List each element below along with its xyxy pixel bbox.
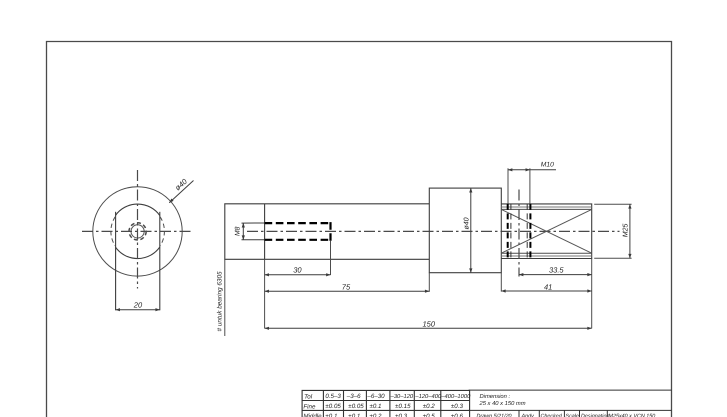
svg-text:150: 150: [423, 320, 436, 329]
dimension 41: [501, 290, 591, 292]
svg-text:ø40: ø40: [173, 176, 189, 192]
svg-text:75: 75: [342, 283, 351, 292]
dimension 33.5: [519, 274, 592, 276]
end view: outer circle ø40: [93, 187, 182, 276]
svg-text:±0.15: ±0.15: [395, 403, 411, 410]
svg-text:M10: M10: [541, 162, 554, 169]
end view: inner circle top arc: [116, 204, 160, 215]
svg-text:±0.1: ±0.1: [325, 413, 337, 417]
main horizontal centerline: [247, 230, 620, 232]
page frame border: [47, 42, 672, 417]
svg-text:±0.2: ±0.2: [370, 413, 383, 417]
svg-text:M25: M25: [623, 223, 630, 237]
svg-text:41: 41: [544, 282, 552, 291]
svg-text:# untuk bearing 6305: # untuk bearing 6305: [217, 271, 224, 331]
ø40 dimension line (vertical inside section): [470, 188, 472, 273]
extension x=264.6 down: [264, 259, 266, 328]
svg-text:0.5–3: 0.5–3: [325, 393, 341, 400]
end view: M8 thread dashed circle: [129, 223, 146, 240]
side view: ø40 section outline: [429, 188, 501, 273]
leader line for ø40: [169, 181, 193, 203]
svg-text:±0.5: ±0.5: [423, 413, 436, 417]
svg-text:M8: M8: [235, 226, 242, 236]
extension line x=501.3 down (41 dim): [500, 273, 502, 292]
end view: right flat line + extension: [159, 212, 161, 310]
svg-text:Designation: Designation: [581, 414, 609, 417]
svg-text:25 x 40 x 150 mm: 25 x 40 x 150 mm: [479, 400, 526, 407]
svg-text:–3–6: –3–6: [346, 393, 361, 400]
M8 hole extension lines: [242, 222, 265, 224]
svg-text:Middle: Middle: [303, 413, 322, 417]
end view: dashed arc left (circle behind flat): [111, 217, 115, 246]
svg-text:±0.1: ±0.1: [370, 403, 382, 410]
X cross diagonal 2: [501, 209, 591, 253]
extension line x=591.9 down: [591, 259, 593, 329]
M10 dimension extension lines: [507, 168, 509, 203]
M10 hole centerline: [518, 190, 520, 277]
dimension 30: [265, 274, 331, 276]
dimension 75: [265, 290, 430, 292]
extension x=429.3 down (75 dim): [428, 273, 430, 292]
svg-text:±0.3: ±0.3: [451, 403, 464, 410]
end view: dashed arc right: [160, 217, 164, 246]
threaded section M25: outer lines: [501, 204, 591, 259]
title block: dimension box: [469, 390, 672, 410]
svg-text:M25x40 x VCN 150: M25x40 x VCN 150: [609, 414, 656, 417]
end view: vertical centerline: [137, 170, 139, 289]
M8 tapped hole hidden lines (thick dashed): [265, 222, 331, 224]
svg-text:–30–120: –30–120: [390, 393, 414, 400]
M8 hole bottom dashed vertical: [329, 222, 331, 241]
svg-text:±0.6: ±0.6: [451, 413, 464, 417]
M10 dimension line: [508, 169, 530, 171]
svg-text:±0.05: ±0.05: [325, 403, 341, 410]
side view: section A outline (ø25 part): [225, 204, 429, 259]
svg-text:ø40: ø40: [463, 217, 470, 229]
svg-text:±0.2: ±0.2: [423, 403, 436, 410]
extension x=330.5 down (30 dim): [330, 241, 332, 275]
svg-text:Checked: Checked: [541, 414, 563, 417]
svg-text:20: 20: [133, 300, 143, 309]
tol table row 2 text: [303, 403, 463, 410]
end view: M8 hole minor circle: [131, 225, 144, 238]
title block: bottom row (clipped): [519, 410, 607, 417]
svg-text:Dimension :: Dimension :: [480, 393, 511, 400]
svg-text:±0.3: ±0.3: [395, 413, 408, 417]
svg-text:Drawn 5/21/20: Drawn 5/21/20: [477, 413, 512, 417]
M25 dimension line: [629, 204, 631, 258]
svg-text:30: 30: [293, 266, 302, 275]
svg-text:–120–400: –120–400: [414, 393, 442, 400]
end view: horizontal centerline: [82, 230, 192, 232]
svg-text:33.5: 33.5: [549, 265, 564, 274]
side view: flat end feature line: [264, 204, 266, 259]
dimension 150: [265, 327, 592, 329]
threaded section: inner thread lines: [501, 206, 591, 208]
end view: inner circle bottom arc: [116, 247, 160, 258]
svg-text:Andy: Andy: [521, 414, 535, 417]
svg-text:±0.05: ±0.05: [348, 403, 364, 410]
svg-text:–6–30: –6–30: [366, 393, 385, 400]
svg-text:±0.1: ±0.1: [348, 413, 360, 417]
dimension 20 line: [116, 309, 160, 311]
M8 dimension line: [242, 223, 244, 240]
end view: left flat line + extension: [115, 212, 117, 310]
svg-text:–400–1000: –400–1000: [440, 393, 471, 400]
title block: tolerance table: [302, 390, 470, 417]
tol table row 1 text: [304, 393, 471, 400]
M10 hidden hole dashed lines: [507, 204, 509, 259]
svg-text:Fine: Fine: [303, 403, 316, 410]
svg-text:Scale: Scale: [566, 414, 580, 417]
svg-text:Tol: Tol: [304, 393, 313, 400]
M25 extension lines: [594, 203, 631, 205]
X cross diagonal 1: [501, 209, 591, 253]
tol table row 3 text (clipped): [303, 413, 463, 417]
side view: left face extension line down: [224, 259, 226, 336]
